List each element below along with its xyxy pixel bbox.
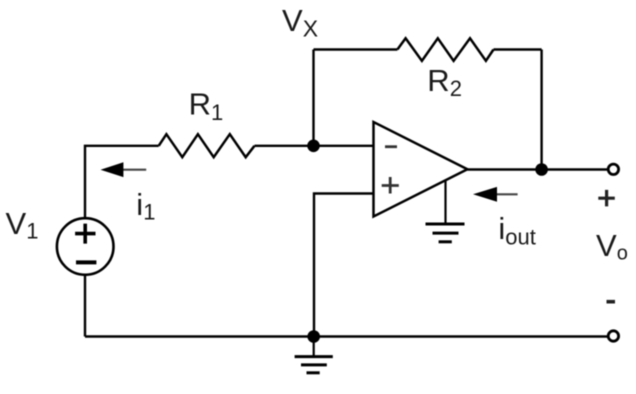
terminal + (top output) [608,164,618,174]
svg-text:iout: iout [498,211,535,250]
wire R1 to op-amp inverting input [255,145,374,147]
voltage source V1 [57,218,114,275]
ground (op-amp) [426,181,465,242]
wire V1 top to R1 [85,146,159,218]
svg-text:Vo: Vo [596,228,628,265]
terminal - (bottom output) [608,331,618,341]
resistor R2 [397,38,493,61]
wire node Vx up to top rail [312,50,314,146]
wire top rail left [314,48,398,50]
wire bottom rail [85,335,609,337]
node C (bottom ground junction) [307,330,320,343]
ground (bottom) [295,337,333,373]
wire op-amp noninverting input [314,194,374,337]
op-amp U1 [374,122,468,217]
svg-text:i1: i1 [136,187,155,225]
label - (output polarity) [607,300,616,304]
wire top rail right [494,48,542,50]
svg-text:V1: V1 [6,206,39,244]
node B (output junction) [535,163,548,176]
wire V1 bottom to ground rail [84,276,86,337]
arrow iout [473,187,518,202]
node A (Vx junction) [307,140,320,153]
resistor R1 [159,134,255,157]
arrow i1 [101,162,147,177]
wire right feedback vertical [540,50,542,170]
label + (output polarity) [598,190,615,207]
svg-text:R1: R1 [189,86,224,125]
wire op-amp output [467,168,608,170]
svg-text:VX: VX [282,3,318,42]
svg-text:R2: R2 [427,63,462,101]
